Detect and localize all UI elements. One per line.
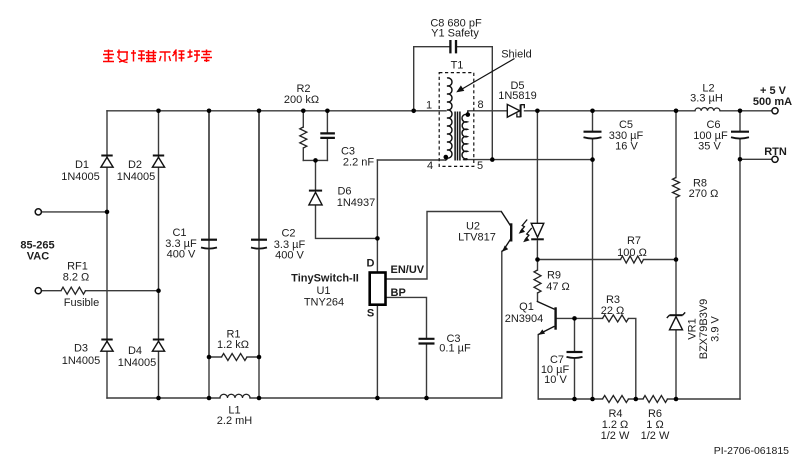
wire secondary rail to D5 — [468, 110, 507, 112]
junction opto cathode R9 R7 — [535, 257, 540, 262]
capacitor C2 — [251, 111, 267, 357]
wire S pin — [376, 306, 378, 398]
optocoupler U2 phototransistor — [501, 212, 511, 252]
junction D4 bottom rail — [156, 396, 161, 401]
capacitor C5 — [584, 132, 602, 139]
svg-text:3.3 µH: 3.3 µH — [690, 93, 723, 105]
svg-text:D1: D1 — [75, 159, 89, 171]
svg-text:8: 8 — [477, 99, 483, 111]
wire Q1 base line — [557, 317, 603, 319]
junction R4 R6 R3 — [634, 397, 639, 402]
transformer T1 core — [455, 112, 460, 161]
svg-text:2.2 mH: 2.2 mH — [217, 415, 253, 427]
svg-text:22 Ω: 22 Ω — [601, 305, 625, 317]
junction RF1 to D2 D4 — [156, 288, 161, 293]
svg-text:RTN: RTN — [764, 146, 787, 158]
transistor Q1 — [537, 301, 556, 334]
wire Q1 emitter column — [537, 335, 539, 399]
diode D2 — [152, 156, 164, 168]
terminal RTN — [772, 156, 778, 162]
svg-text:R7: R7 — [627, 235, 641, 247]
junction clamp to D6 — [313, 158, 318, 163]
wire D5 cathode to output — [525, 110, 772, 112]
junction C8 to pin 5 — [490, 157, 495, 162]
capacitor C6 — [731, 132, 749, 139]
svg-text:1/2 W: 1/2 W — [601, 430, 630, 442]
svg-text:LTV817: LTV817 — [458, 232, 496, 244]
transformer T1 dashed box — [439, 73, 474, 167]
wire bottom rail secondary — [538, 398, 740, 400]
terminal circles — [35, 108, 778, 294]
junction D2 top rail — [156, 109, 161, 114]
svg-text:3.9 V: 3.9 V — [710, 315, 722, 341]
wire R3 right leg — [629, 318, 636, 399]
transformer T1 secondary winding — [462, 114, 467, 158]
svg-text:U1: U1 — [316, 285, 330, 297]
junction C2 top rail — [257, 109, 262, 114]
Q1 emitter arrowhead — [539, 329, 546, 335]
wire pin4 horizontal — [377, 159, 445, 161]
svg-text:Shield: Shield — [501, 49, 532, 61]
wire opto EN/UV path — [387, 212, 501, 280]
svg-text:VAC: VAC — [27, 251, 49, 263]
svg-text:35 V: 35 V — [698, 141, 721, 153]
wire input line bottom through RF1 — [41, 290, 158, 292]
resistor R4 — [603, 396, 629, 403]
wire D2 column — [158, 111, 160, 398]
wire BP path — [387, 297, 427, 337]
wire input line top — [38, 211, 107, 213]
diode D6 — [309, 191, 322, 205]
zener VR1 — [667, 312, 685, 329]
svg-text:10 V: 10 V — [544, 374, 567, 386]
svg-text:16 V: 16 V — [615, 141, 638, 153]
node D drain — [375, 236, 380, 241]
wire C1 column — [208, 111, 210, 398]
diode D1 — [101, 156, 113, 168]
wire R1 stubs — [209, 356, 259, 358]
wire C7 column — [574, 318, 576, 399]
wire C3 BP bottom — [426, 345, 428, 398]
wire C8 branch right — [457, 47, 493, 160]
terminal AC input N — [35, 288, 41, 294]
junction C8 branch — [411, 109, 416, 114]
capacitor C1 — [201, 111, 217, 357]
junction C3 clamp top rail — [325, 109, 330, 114]
svg-text:1N4005: 1N4005 — [117, 171, 156, 183]
U1 TinySwitch box — [370, 273, 386, 305]
resistor R7 — [621, 256, 644, 263]
capacitor C3 at BP pin — [419, 339, 435, 344]
transformer primary bottom lead — [445, 158, 447, 160]
capacitor C7 — [567, 352, 583, 358]
junction Q1 base C7 — [572, 316, 577, 321]
terminal AC input L — [35, 209, 41, 215]
svg-text:1N4005: 1N4005 — [62, 355, 101, 367]
svg-text:D6: D6 — [337, 186, 351, 198]
svg-text:2N3904: 2N3904 — [505, 313, 544, 325]
junction C5 minus RTN — [590, 157, 595, 162]
wire C5 column — [592, 111, 594, 399]
wire R9 stubs — [537, 260, 539, 302]
wire bottom rail primary — [107, 252, 502, 399]
svg-text:T1: T1 — [451, 60, 464, 72]
svg-text:1N5819: 1N5819 — [498, 90, 537, 102]
junction AC input top — [105, 210, 110, 215]
svg-text:1.2 kΩ: 1.2 kΩ — [217, 339, 249, 351]
diode D4 — [152, 340, 164, 352]
transformer secondary leads — [464, 111, 469, 159]
optocoupler LED — [531, 223, 544, 239]
junction C1 top rail — [207, 109, 212, 114]
resistor RF1 — [61, 287, 86, 294]
transformer T1 primary winding — [447, 78, 452, 158]
svg-text:2.2 nF: 2.2 nF — [343, 157, 374, 169]
junction R2 top rail — [301, 109, 306, 114]
junction D5 output node — [535, 109, 540, 114]
wire R8 column — [675, 111, 677, 399]
wire C2 column — [258, 111, 260, 398]
resistor R2 — [300, 127, 307, 148]
svg-text:EN/UV: EN/UV — [391, 264, 425, 276]
svg-text:Q1: Q1 — [519, 301, 534, 313]
junction R6 VR1 bottom — [674, 397, 679, 402]
svg-text:BP: BP — [391, 287, 406, 299]
svg-text:Y1 Safety: Y1 Safety — [431, 28, 479, 40]
wire C6 column — [739, 111, 741, 399]
junction T1 pin 8 — [466, 112, 471, 117]
wire R2 stubs — [302, 111, 304, 161]
wire drain column — [376, 160, 378, 271]
svg-text:47 Ω: 47 Ω — [546, 281, 570, 293]
wire left input column — [106, 111, 108, 398]
wire clamp bottom bar — [303, 159, 327, 161]
svg-text:500 mA: 500 mA — [753, 96, 792, 108]
svg-text:TinySwitch-II: TinySwitch-II — [291, 273, 359, 285]
optocoupler light arrows — [519, 220, 532, 243]
svg-text:1N4937: 1N4937 — [337, 197, 376, 209]
svg-text:R9: R9 — [547, 270, 561, 282]
resistor R3 — [603, 315, 629, 322]
junction T1 pin 4 — [444, 155, 449, 160]
junction C6 plus — [738, 109, 743, 114]
svg-text:0.1 µF: 0.1 µF — [439, 343, 471, 355]
svg-text:100 Ω: 100 Ω — [617, 247, 647, 259]
svg-text:400 V: 400 V — [275, 250, 304, 262]
junction C1 bottom rail — [207, 396, 212, 401]
capacitor C8 — [450, 40, 456, 53]
junction C5 plus — [590, 109, 595, 114]
svg-text:1: 1 — [426, 100, 432, 112]
wire opto LED column — [536, 111, 538, 260]
resistor R1 — [222, 354, 248, 361]
optocoupler emitter arrowhead — [502, 246, 508, 252]
junction R7 R8 VR1 — [674, 257, 679, 262]
wire secondary return line — [464, 159, 593, 161]
terminal +5V output — [772, 108, 778, 114]
junction C7 bottom — [572, 397, 577, 402]
wire top rail primary — [107, 110, 446, 112]
resistor R8 — [673, 178, 680, 198]
svg-text:D2: D2 — [128, 159, 142, 171]
svg-text:C2: C2 — [281, 228, 295, 240]
inductor L2 — [695, 108, 720, 111]
shield arrow — [456, 59, 514, 93]
svg-text:VR1: VR1 — [687, 318, 699, 339]
svg-text:Fusible: Fusible — [64, 297, 99, 309]
wire D6 vertical — [316, 160, 378, 238]
svg-text:1N4005: 1N4005 — [61, 171, 100, 183]
junction C2 L1 bottom rail — [257, 396, 262, 401]
capacitor C3 clamp — [320, 133, 335, 138]
svg-text:PI-2706-061815: PI-2706-061815 — [714, 445, 789, 457]
junction secondary ground — [590, 397, 595, 402]
svg-text:S: S — [367, 308, 374, 320]
svg-text:D: D — [367, 258, 375, 270]
svg-text:400 V: 400 V — [167, 249, 196, 261]
svg-text:TNY264: TNY264 — [304, 297, 344, 309]
svg-text:270 Ω: 270 Ω — [689, 188, 719, 200]
wire R7 line — [537, 259, 676, 261]
junction R1 right — [257, 355, 262, 360]
wire RTN terminal — [740, 158, 772, 160]
svg-text:D4: D4 — [128, 345, 142, 357]
junction R8 top — [674, 109, 679, 114]
diode D5 schottky — [507, 104, 524, 117]
diode D3 — [101, 340, 113, 352]
junction R1 left — [207, 355, 212, 360]
resistor R9 — [534, 270, 541, 293]
junction C3 bottom — [424, 396, 429, 401]
svg-text:1N4005: 1N4005 — [118, 357, 157, 369]
svg-text:D3: D3 — [74, 343, 88, 355]
inductor L1 — [220, 394, 250, 398]
svg-text:4: 4 — [427, 160, 433, 172]
svg-text:8.2 Ω: 8.2 Ω — [63, 272, 90, 284]
junction U1 source — [375, 396, 380, 401]
resistor R6 — [643, 396, 668, 403]
wire C8 branch left — [414, 47, 450, 111]
wire C3 clamp stubs — [326, 111, 328, 161]
svg-text:1/2 W: 1/2 W — [641, 430, 670, 442]
svg-text:200 kΩ: 200 kΩ — [284, 94, 319, 106]
svg-text:5: 5 — [477, 160, 483, 172]
svg-text:BZX79B3V9: BZX79B3V9 — [698, 299, 710, 360]
junction C6 minus RTN — [738, 157, 743, 162]
red watermark 黄成秘籍不得转卖 — [103, 50, 212, 63]
